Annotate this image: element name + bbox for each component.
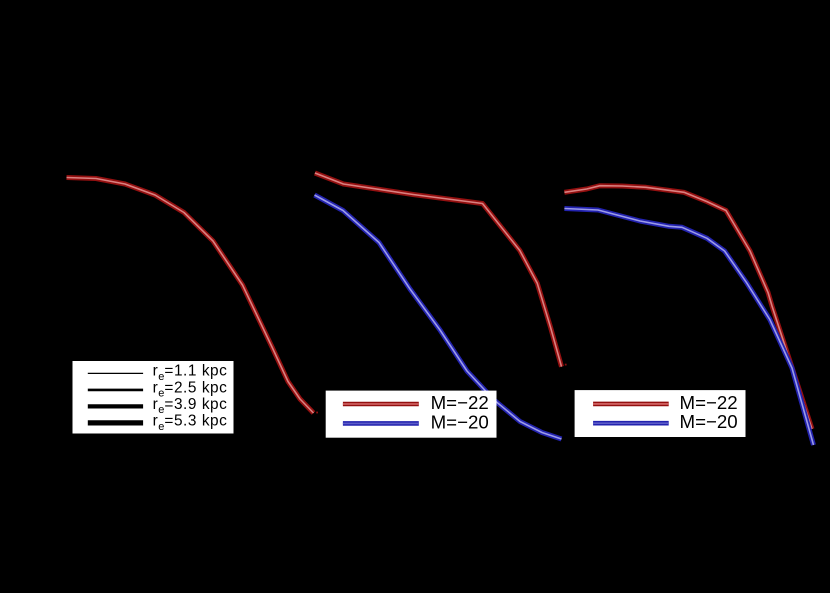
legend 3 red sample bbox=[593, 402, 669, 407]
legend 2 blue sample bbox=[343, 421, 419, 426]
panel 2 end dot bbox=[565, 364, 567, 366]
legend 2 box bbox=[326, 391, 497, 438]
panel 2 blue curve bbox=[315, 195, 562, 439]
panel 1 red curve bbox=[67, 178, 314, 414]
svg-text:M=−22: M=−22 bbox=[680, 392, 738, 413]
legend 2 red sample bbox=[343, 402, 419, 407]
svg-text:M=−20: M=−20 bbox=[680, 411, 738, 432]
legend 1 line samples bbox=[88, 372, 143, 374]
svg-text:M=−20: M=−20 bbox=[431, 411, 489, 432]
panel 2 red curve bbox=[315, 173, 562, 367]
legend 1 box bbox=[73, 361, 234, 434]
panel 3 blue curve bbox=[564, 209, 813, 446]
legend 3 box bbox=[575, 390, 746, 437]
panel 1 end dot bbox=[316, 412, 318, 414]
legend 3 blue sample bbox=[593, 421, 669, 426]
svg-text:M=−22: M=−22 bbox=[431, 392, 489, 413]
panel 3 red curve bbox=[564, 186, 812, 429]
